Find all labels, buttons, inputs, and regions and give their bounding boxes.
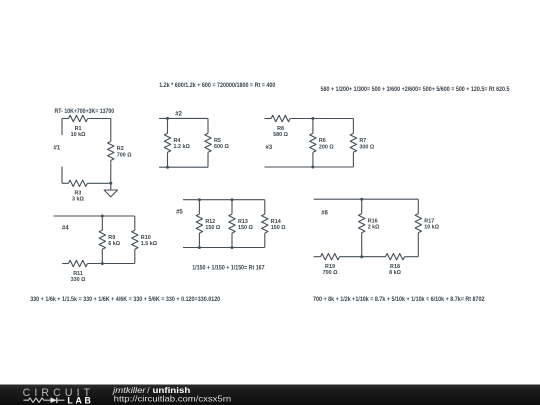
svg-text:LAB: LAB	[67, 396, 93, 405]
junction c5 bottom R13	[231, 246, 234, 249]
wire c3 top-left lead	[264, 118, 271, 120]
svg-text:10 kΩ: 10 kΩ	[71, 132, 86, 138]
wire R6 lower lead	[312, 152, 314, 167]
wire c4 top	[54, 215, 135, 217]
svg-text:R7: R7	[359, 138, 366, 144]
resistor R16	[359, 214, 365, 233]
wire c4 bottom-left lead	[62, 263, 68, 265]
junction c6 top	[360, 198, 363, 201]
svg-text:1.5 kΩ: 1.5 kΩ	[141, 241, 158, 247]
svg-text:8 kΩ: 8 kΩ	[389, 270, 401, 276]
svg-text:580 + 1/200+ 1/300= 500 + 3/60: 580 + 1/200+ 1/300= 500 + 3/600 +2/600= …	[321, 86, 510, 93]
wire R4 upper lead	[167, 118, 169, 133]
wire R7 upper lead	[352, 119, 354, 134]
svg-text:1.2 kΩ: 1.2 kΩ	[174, 144, 191, 150]
wire c1 top-left lead	[62, 118, 69, 120]
svg-text:R9: R9	[108, 235, 115, 241]
svg-text:2 kΩ: 2 kΩ	[368, 225, 380, 231]
svg-text:R14: R14	[271, 219, 281, 225]
wire c3 bottom	[264, 166, 353, 168]
wire R10 lower lead	[134, 249, 136, 263]
svg-text:1.2k * 600/1.2k + 600 = 720000: 1.2k * 600/1.2k + 600 = 720000/1800 = Rt…	[159, 82, 276, 89]
resistor R8	[271, 115, 290, 121]
wire R13 upper lead	[231, 200, 233, 214]
wire c1 left lower stub	[61, 167, 63, 184]
svg-text:6 kΩ: 6 kΩ	[108, 241, 120, 247]
wire R14 lower lead	[264, 233, 266, 247]
wire c2 top	[159, 117, 208, 119]
svg-text:200 Ω: 200 Ω	[319, 144, 334, 150]
wire R5 upper lead	[207, 118, 209, 133]
svg-text:#4: #4	[62, 226, 69, 232]
wire R2 upper lead	[110, 119, 112, 142]
svg-text:#2: #2	[175, 112, 182, 118]
wire R9 lower lead	[101, 249, 103, 263]
wire c1 top-right	[88, 118, 111, 120]
wire R9 upper lead	[101, 216, 103, 230]
svg-text:R6: R6	[319, 138, 326, 144]
svg-text:R4: R4	[174, 138, 181, 144]
junction c2 top	[166, 117, 169, 120]
resistor R19	[321, 254, 340, 260]
svg-text:R17: R17	[424, 218, 434, 224]
wire c5 top	[183, 199, 265, 201]
resistor R5	[205, 133, 211, 152]
wire R7 lower lead	[352, 152, 354, 167]
wire c2 bottom	[159, 166, 208, 168]
svg-text:700 + 8k + 1/2k +1/10k = 8.7k: 700 + 8k + 1/2k +1/10k = 8.7k + 5/10k + …	[313, 296, 485, 303]
junction c2 bottom	[166, 166, 169, 169]
svg-text:10 kΩ: 10 kΩ	[424, 225, 439, 231]
junction c5 bottom R12	[198, 246, 201, 249]
svg-text:#3: #3	[266, 145, 273, 151]
logo resistor-diode glyph	[24, 398, 51, 403]
resistor R2	[108, 141, 114, 160]
footer bar	[0, 385, 540, 405]
wire R5 lower lead	[207, 152, 209, 167]
svg-text:R5: R5	[214, 138, 221, 144]
resistor R14	[262, 214, 268, 233]
svg-text:150 Ω: 150 Ω	[238, 225, 253, 231]
wire c1 bottom-right	[87, 182, 110, 184]
resistor R4	[164, 133, 170, 152]
wire R12 upper lead	[198, 200, 200, 214]
svg-text:R13: R13	[238, 219, 248, 225]
svg-text:330 Ω: 330 Ω	[71, 277, 86, 283]
svg-text:R16: R16	[368, 218, 378, 224]
junction c1 ground node	[109, 182, 112, 185]
resistor R13	[229, 214, 235, 233]
svg-text:150 Ω: 150 Ω	[205, 225, 220, 231]
junction c4 bottom	[101, 262, 104, 265]
junction c5 top R12	[198, 198, 201, 201]
wire R16 lower lead	[361, 233, 363, 257]
resistor R1	[69, 115, 88, 121]
junction c6 bottom	[360, 255, 363, 258]
junction c5 top R13	[231, 198, 234, 201]
wire c6 bottom-mid	[340, 256, 386, 258]
wire c6 bottom-right	[405, 256, 419, 258]
svg-text:R2: R2	[117, 146, 124, 152]
svg-text:R12: R12	[205, 219, 215, 225]
wire R10 upper lead	[134, 216, 136, 230]
svg-text:700 Ω: 700 Ω	[117, 152, 132, 158]
wire R16 upper lead	[361, 199, 363, 214]
junction c4 top	[101, 215, 104, 218]
wire R12 lower lead	[198, 233, 200, 247]
wire R17 lower lead	[417, 233, 419, 257]
wire R6 upper lead	[312, 119, 314, 134]
wire R13 lower lead	[231, 233, 233, 247]
svg-text:RT- 10K+700+3K= 13700: RT- 10K+700+3K= 13700	[55, 108, 115, 115]
resistor R6	[310, 133, 316, 152]
ground symbol	[110, 183, 112, 190]
resistor R11	[69, 260, 88, 266]
resistor R7	[350, 133, 356, 152]
wire R17 upper lead	[417, 199, 419, 214]
svg-text:600 Ω: 600 Ω	[214, 144, 229, 150]
wire c4 bottom-right	[88, 263, 135, 265]
svg-text:580 Ω: 580 Ω	[273, 132, 288, 138]
wire R14 upper lead	[264, 200, 266, 214]
svg-text:http://circuitlab.com/cxsx5rn: http://circuitlab.com/cxsx5rn	[114, 394, 232, 404]
resistor R17	[415, 214, 421, 233]
resistor R9	[99, 230, 105, 249]
svg-text:700 Ω: 700 Ω	[323, 270, 338, 276]
wire R4 lower lead	[167, 152, 169, 167]
svg-text:#1: #1	[54, 145, 61, 151]
svg-text:150 Ω: 150 Ω	[271, 225, 286, 231]
junction c3 bottom	[311, 166, 314, 169]
wire c6 bottom-left lead	[314, 256, 321, 258]
svg-text:1/150 + 1/150 + 1/150= Rt 167: 1/150 + 1/150 + 1/150= Rt 167	[192, 265, 265, 272]
resistor R3	[68, 180, 87, 186]
svg-text:330 + 1/6k + 1/1.5k = 330 + 1/: 330 + 1/6k + 1/1.5k = 330 + 1/6K + 4/6K …	[30, 296, 220, 303]
wire c1 bottom-left lead	[62, 182, 68, 184]
wire R2 lower lead	[110, 160, 112, 183]
svg-text:#6: #6	[321, 211, 328, 217]
resistor R18	[386, 254, 405, 260]
wire c1 left upper stub	[61, 119, 63, 136]
junction c3 top	[311, 117, 314, 120]
svg-text:300 Ω: 300 Ω	[359, 144, 374, 150]
wire c3 top-right	[290, 118, 353, 120]
wire c6 top	[314, 198, 419, 200]
svg-text:3 kΩ: 3 kΩ	[72, 197, 84, 203]
resistor R12	[196, 214, 202, 233]
svg-text:#5: #5	[176, 210, 183, 216]
svg-text:R10: R10	[141, 235, 151, 241]
resistor R10	[132, 230, 138, 249]
wire c5 bottom	[183, 247, 265, 249]
